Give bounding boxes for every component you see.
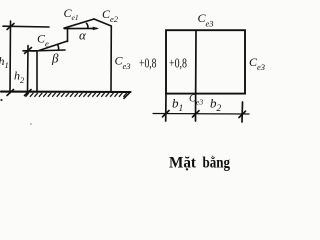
alpha reference line with arrow — [65, 27, 97, 29]
svg-text:β: β — [51, 51, 59, 66]
plan left edge extension — [165, 94, 167, 122]
tick h2 top — [25, 48, 32, 54]
angle arc beta — [58, 45, 59, 51]
ground hatching — [26, 92, 131, 99]
wall right of building — [110, 26, 112, 92]
upper roof slope (c_e2 side) — [94, 19, 111, 26]
svg-text:h1: h1 — [0, 54, 9, 70]
plan rectangle — [166, 30, 245, 93]
dimension line h2 — [27, 46, 30, 93]
tick b left — [163, 111, 170, 117]
svg-text:b2: b2 — [210, 96, 222, 115]
svg-text:Ce3: Ce3 — [115, 54, 131, 72]
svg-text:α: α — [79, 28, 87, 43]
tick b mid — [193, 111, 200, 117]
wall left of building — [36, 51, 38, 92]
roof slope beta — [39, 41, 68, 51]
plan right edge extension — [241, 102, 244, 122]
plan inner division line — [195, 31, 198, 121]
svg-text:Ce: Ce — [37, 32, 49, 49]
svg-text:Ce1: Ce1 — [64, 6, 79, 22]
arrowhead alpha line — [93, 27, 98, 30]
extension line top (h1 level) — [3, 25, 49, 28]
plan bottom dimension line — [153, 113, 249, 116]
extension line h2 (lower eaves level) — [23, 50, 37, 52]
upper left wall — [67, 28, 69, 42]
lower roof edge / beta reference line — [31, 50, 65, 51]
speck — [30, 123, 31, 124]
ground line — [1, 91, 131, 94]
angle arc alpha — [87, 23, 88, 28]
svg-text:bằng: bằng — [203, 155, 231, 172]
upper roof slope (c_e1 side) — [64, 19, 94, 28]
svg-text:h2: h2 — [14, 69, 25, 86]
tick h2 bottom — [25, 90, 32, 96]
speck left — [0, 99, 2, 101]
svg-text:Ce2: Ce2 — [102, 7, 119, 24]
tick h1 top — [7, 24, 14, 30]
svg-text:Mặt: Mặt — [169, 155, 197, 172]
svg-text:Ce3: Ce3 — [249, 55, 265, 72]
svg-text:+0,8: +0,8 — [139, 57, 157, 72]
dimension line h1 — [9, 21, 12, 93]
svg-text:+0,8: +0,8 — [169, 57, 187, 72]
svg-text:Ce3: Ce3 — [198, 11, 214, 29]
tick b right — [239, 111, 246, 117]
svg-text:b1: b1 — [172, 96, 183, 115]
tick h1 bottom — [7, 90, 14, 96]
